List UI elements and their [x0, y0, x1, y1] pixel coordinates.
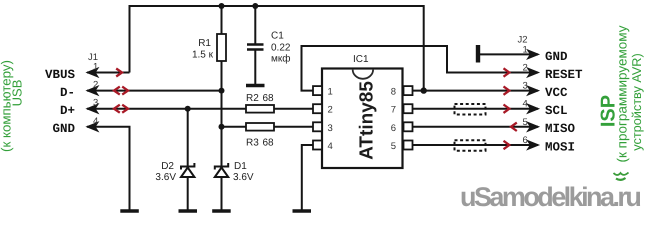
- IC1 pin box 8: [404, 86, 413, 95]
- label USB green: [16, 92, 18, 94]
- ground IC pin4: [293, 209, 312, 213]
- IC1 pin box 2: [313, 104, 322, 113]
- svg-text:VBUS: VBUS: [45, 68, 76, 82]
- red arrow MISO left: [511, 123, 517, 131]
- wire R3 right lead to pin3: [274, 126, 313, 128]
- resistor R3: [246, 123, 274, 131]
- svg-text:1: 1: [328, 87, 333, 98]
- J1 pin arrow D-: [87, 86, 99, 96]
- IC1 pin box 1: [313, 86, 322, 95]
- red arrow VBUS right: [116, 69, 122, 77]
- svg-text:D2: D2: [161, 161, 174, 172]
- svg-text:1.5 к: 1.5 к: [192, 50, 214, 61]
- svg-text:5: 5: [391, 141, 396, 152]
- wire C1 leads: [254, 6, 256, 44]
- wire pin8 VCC to J2: [413, 90, 539, 92]
- svg-text:R2: R2: [246, 93, 259, 104]
- svg-text:2: 2: [93, 80, 98, 91]
- wire D- from J1 to node: [87, 90, 222, 92]
- svg-text:6: 6: [523, 135, 528, 146]
- red arrow SCL: [504, 105, 510, 113]
- svg-text:R1: R1: [198, 38, 211, 49]
- J2 arrow RESET: [527, 68, 539, 78]
- svg-text:3: 3: [328, 123, 333, 134]
- wire R1/D1 vertical net: [221, 6, 223, 34]
- wire D+ from J1 to R2: [87, 108, 246, 110]
- svg-text:1: 1: [93, 62, 98, 73]
- label устройству AVR green: [636, 101, 638, 103]
- IC1 pin box 6: [404, 122, 413, 131]
- svg-text:3: 3: [93, 98, 98, 109]
- svg-text:D+: D+: [60, 104, 75, 118]
- svg-text:R3: R3: [246, 138, 259, 149]
- svg-text:D1: D1: [234, 161, 247, 172]
- wire VBUS from J1: [87, 72, 130, 74]
- J2 GND bar terminal: [476, 45, 480, 63]
- IC1 notch: [353, 70, 373, 79]
- zener diode D2: [181, 163, 194, 177]
- label к программируемому green: [621, 93, 623, 95]
- J1 pin arrow D+: [87, 104, 99, 114]
- svg-text:7: 7: [391, 105, 396, 116]
- svg-text:C1: C1: [271, 31, 284, 42]
- wire pin1 to J2 RESET: [302, 46, 539, 91]
- red arrow MOSI: [504, 141, 510, 149]
- ground D2: [179, 209, 198, 213]
- junction R3 tap: [219, 124, 225, 130]
- svg-text:IC1: IC1: [353, 54, 369, 65]
- watermark green icon: [612, 171, 630, 182]
- svg-text:68: 68: [263, 138, 275, 149]
- wire J2 GND: [480, 53, 538, 55]
- wire R2 right lead to pin2: [274, 108, 313, 110]
- J2 arrow VCC: [527, 86, 539, 96]
- watermark uSamodelkina.ru: [460, 182, 639, 213]
- zener diode D1: [215, 163, 228, 177]
- red arrows D- bidirectional: [114, 87, 128, 95]
- label ISP green: [608, 110, 610, 112]
- svg-text:5: 5: [523, 117, 528, 128]
- svg-text:мкф: мкф: [271, 54, 290, 65]
- svg-text:ATtiny85: ATtiny85: [357, 81, 378, 160]
- capacitor C1: [247, 45, 264, 50]
- ground J1: [120, 209, 139, 213]
- J1 pin arrow GND: [87, 122, 99, 132]
- IC1 pin box 7: [404, 104, 413, 113]
- svg-text:68: 68: [263, 93, 275, 104]
- IC1 pin box 3: [313, 122, 322, 131]
- wire VBUS rail top: [130, 6, 424, 91]
- IC1 pin box 4: [313, 141, 322, 150]
- wire pin6 MISO to J2: [413, 126, 539, 128]
- svg-text:4: 4: [523, 99, 528, 110]
- IC1 pin box 5: [404, 141, 413, 150]
- junction rail R1: [219, 3, 225, 9]
- svg-text:GND: GND: [545, 50, 568, 64]
- wire pin7 SCL to J2: [413, 108, 539, 110]
- resistor R2: [246, 105, 274, 113]
- svg-text:1: 1: [523, 44, 528, 55]
- svg-text:4: 4: [93, 116, 98, 127]
- svg-text:MOSI: MOSI: [545, 140, 575, 154]
- red arrow RESET: [504, 68, 510, 76]
- J2 arrow MOSI: [527, 140, 539, 150]
- ground C1: [246, 84, 265, 87]
- red arrow VCC: [504, 86, 510, 94]
- wire R3 left lead: [222, 126, 247, 128]
- junction VCC: [421, 87, 427, 93]
- svg-text:4: 4: [328, 141, 333, 152]
- J1 pin arrow VBUS: [87, 68, 99, 78]
- svg-text:8: 8: [391, 87, 396, 98]
- wire D2 vertical: [187, 109, 189, 167]
- svg-text:2: 2: [523, 63, 528, 74]
- red arrows D+ bidirectional: [114, 105, 128, 113]
- optional dashed box SCL: [455, 104, 486, 115]
- junction rail C1: [252, 3, 258, 9]
- svg-text:2: 2: [328, 105, 333, 116]
- junction D+ D2: [185, 106, 191, 112]
- resistor R1: [217, 34, 226, 61]
- svg-text:6: 6: [391, 123, 396, 134]
- op IC1 body: [322, 69, 403, 169]
- svg-text:D-: D-: [60, 86, 75, 100]
- J2 arrow GND: [527, 50, 539, 60]
- svg-text:3.6V: 3.6V: [233, 172, 254, 183]
- svg-text:3: 3: [523, 81, 528, 92]
- wire pin4 to ground: [302, 145, 313, 210]
- wire pin5 MOSI to J2: [413, 144, 539, 146]
- J2 arrow MISO: [527, 122, 539, 132]
- ground D1: [212, 209, 231, 213]
- svg-text:0.22: 0.22: [271, 43, 291, 54]
- J2 arrow SCL: [527, 104, 539, 114]
- junction D- R1 D1: [219, 88, 225, 94]
- svg-text:VCC: VCC: [545, 86, 568, 100]
- svg-text:RESET: RESET: [545, 68, 583, 82]
- wire GND from J1 down: [87, 127, 130, 210]
- svg-text:MISO: MISO: [545, 122, 576, 136]
- label к компьютеру green: [5, 105, 7, 107]
- svg-text:3.6V: 3.6V: [155, 172, 176, 183]
- svg-text:SCL: SCL: [545, 104, 568, 118]
- optional dashed box MOSI: [455, 140, 486, 151]
- svg-text:GND: GND: [52, 122, 75, 136]
